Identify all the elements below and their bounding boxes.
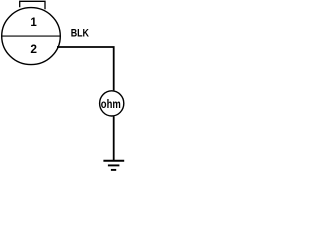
sensor body (round two-terminal sender) [2,8,61,65]
wire: ohmmeter to ground [113,116,115,160]
divider line between terminals [2,35,61,37]
wire BLK: sensor to ohmmeter [57,47,114,90]
svg-text:BLK: BLK [71,28,89,40]
svg-text:ohm: ohm [101,97,121,111]
ground [103,161,124,170]
ohmmeter M1 [100,91,124,116]
sensor mounting tab [20,1,45,9]
svg-text:1: 1 [30,17,37,29]
svg-text:2: 2 [30,44,37,56]
